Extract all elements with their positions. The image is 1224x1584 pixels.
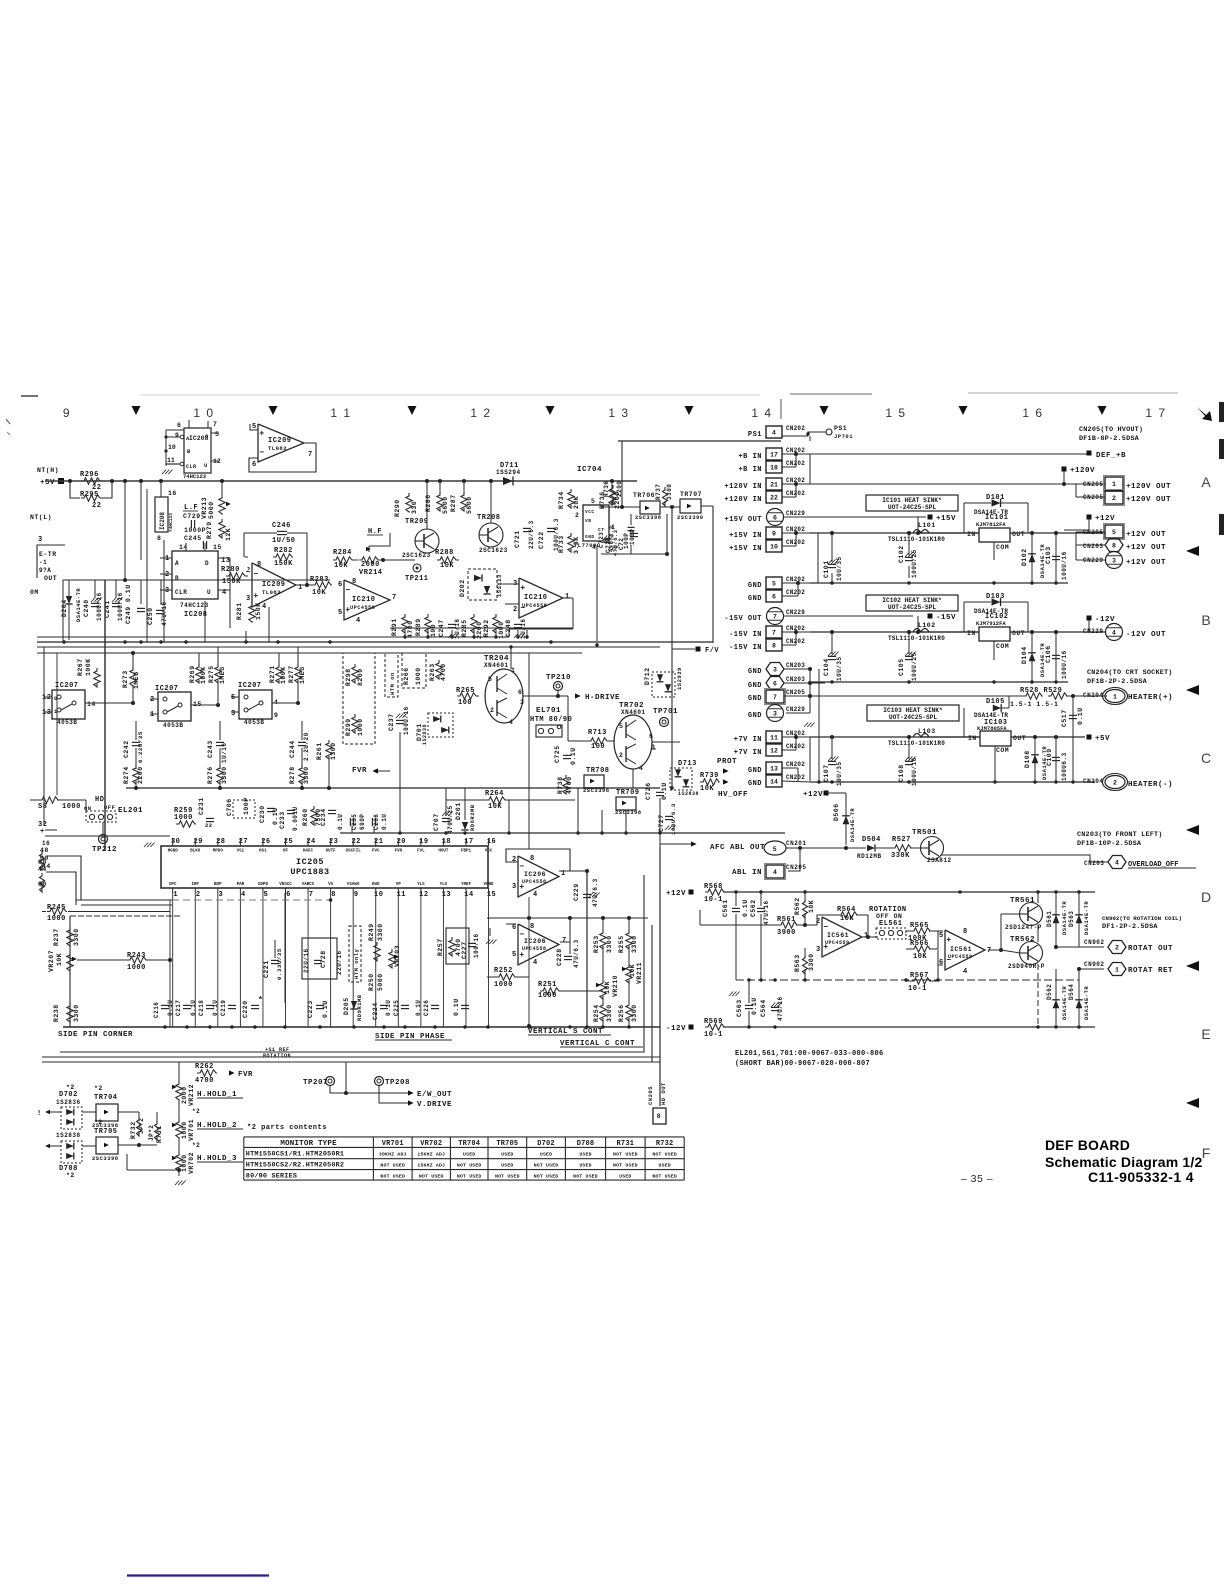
svg-text:100/16: 100/16 <box>473 933 480 958</box>
svg-text:NOT USED: NOT USED <box>613 1163 638 1169</box>
svg-text:NOT USED: NOT USED <box>380 1163 405 1169</box>
capacitor C706 100P dashed <box>233 800 255 818</box>
svg-text:R288: R288 <box>435 549 454 557</box>
svg-text:14: 14 <box>87 701 96 708</box>
bus wire y629 segment <box>509 628 573 630</box>
svg-text:YREF: YREF <box>461 883 472 887</box>
svg-text:TP211: TP211 <box>405 575 429 583</box>
trimmer VR210 10K <box>600 980 606 999</box>
capacitor C109 100U6.3 <box>1055 737 1057 782</box>
left edge box E-TR <box>37 545 65 578</box>
svg-text:C564: C564 <box>760 999 767 1017</box>
svg-text:2SC3398: 2SC3398 <box>615 809 642 816</box>
vertical drops from +5V rail <box>124 481 126 580</box>
svg-text:C249 0.1U: C249 0.1U <box>125 584 132 624</box>
svg-text:2: 2 <box>619 752 623 759</box>
svg-text:10K: 10K <box>808 900 815 913</box>
svg-text:D564: D564 <box>1068 984 1075 1000</box>
svg-text:1 0: 1 0 <box>193 406 214 420</box>
svg-text:−: − <box>345 586 350 595</box>
svg-text:C240: C240 <box>83 599 90 617</box>
diode D712 1S2939 dashed <box>652 672 675 697</box>
svg-text:100U/16: 100U/16 <box>1061 551 1068 580</box>
svg-text:GND: GND <box>748 780 762 788</box>
svg-text:1: 1 <box>150 711 155 719</box>
svg-text:8: 8 <box>1112 542 1116 549</box>
svg-text:DF1B-8P-2.5DSA: DF1B-8P-2.5DSA <box>1079 435 1140 443</box>
svg-text:4053B: 4053B <box>244 719 265 726</box>
svg-text:OUTF: OUTF <box>326 850 337 854</box>
wire IC209b out <box>296 584 312 586</box>
svg-text:+15V IN: +15V IN <box>729 532 762 540</box>
+15V stub <box>928 515 933 520</box>
svg-text:D205: D205 <box>343 997 350 1015</box>
svg-text:+15V OUT: +15V OUT <box>724 516 762 524</box>
svg-text:TR208: TR208 <box>477 514 501 522</box>
svg-text:CLR: CLR <box>186 464 197 470</box>
wire +5V rail <box>45 480 637 482</box>
svg-text:UOT-24C25-SPL: UOT-24C25-SPL <box>888 504 937 511</box>
svg-text:TSL1110-101K1R0: TSL1110-101K1R0 <box>888 740 945 747</box>
svg-text:– 35 –: – 35 – <box>961 1173 993 1185</box>
svg-text:R299: R299 <box>345 718 352 736</box>
svg-text:TR704: TR704 <box>94 1094 118 1102</box>
svg-text:C729: C729 <box>183 513 201 520</box>
svg-text:USED: USED <box>579 1151 591 1157</box>
svg-text:-12V: -12V <box>666 1025 686 1033</box>
svg-text:2SD1247-P: 2SD1247-P <box>1005 924 1042 931</box>
-12V stub <box>1087 616 1092 621</box>
capacitor C103 100U/16 <box>1055 533 1057 583</box>
svg-text:74HC123: 74HC123 <box>168 513 174 532</box>
svg-text:R737: R737 <box>655 484 662 500</box>
svg-text:100U/6.3: 100U/6.3 <box>670 803 677 835</box>
trimmer VR702 1000 <box>176 1152 182 1171</box>
dashed box R266 1000 <box>402 653 426 688</box>
svg-text:22: 22 <box>770 494 778 501</box>
wires LF <box>221 481 223 495</box>
svg-text:C234: C234 <box>320 808 327 826</box>
svg-text:1S2836: 1S2836 <box>56 1099 81 1106</box>
svg-text:CN202: CN202 <box>786 589 805 596</box>
svg-text:IC210: IC210 <box>352 596 376 604</box>
svg-text:3: 3 <box>512 883 517 891</box>
svg-text:7: 7 <box>773 694 777 701</box>
jumper JP701 <box>782 435 808 437</box>
svg-text:NT(H): NT(H) <box>37 467 59 474</box>
svg-text:8: 8 <box>157 535 161 542</box>
svg-text:6: 6 <box>512 924 517 932</box>
svg-text:1S2838: 1S2838 <box>678 791 699 797</box>
svg-text:C109: C109 <box>1046 748 1053 766</box>
svg-text:3300: 3300 <box>631 1004 638 1022</box>
+7V rail wires <box>782 736 810 738</box>
svg-text:4: 4 <box>772 429 776 436</box>
svg-text:RD12MB: RD12MB <box>857 853 882 860</box>
H-HOLD wires <box>178 1062 180 1081</box>
svg-text:74HC123: 74HC123 <box>180 602 209 609</box>
svg-text:R568: R568 <box>704 883 723 891</box>
trimmer VR212 2000 <box>176 1081 182 1100</box>
svg-text:E/W_OUT: E/W_OUT <box>417 1091 452 1099</box>
svg-text:5: 5 <box>264 891 269 899</box>
H-DRIVE arrow <box>575 693 581 698</box>
svg-text:CN202: CN202 <box>786 425 805 432</box>
svg-text:YLS: YLS <box>417 883 425 887</box>
svg-text:NOT USED: NOT USED <box>495 1174 520 1180</box>
svg-text:-15V IN: -15V IN <box>729 644 762 652</box>
svg-text:3900: 3900 <box>777 929 796 937</box>
svg-text:D702: D702 <box>537 1140 555 1148</box>
svg-text:D713: D713 <box>678 760 697 768</box>
svg-text:C103: C103 <box>1045 546 1052 564</box>
svg-text:5600: 5600 <box>466 496 473 514</box>
svg-text:TR708: TR708 <box>586 767 610 775</box>
svg-text:D506: D506 <box>833 803 840 821</box>
svg-text:R266: R266 <box>403 667 410 685</box>
svg-text:9: 9 <box>274 712 278 719</box>
svg-text:DF1B-2P-2.5DSA: DF1B-2P-2.5DSA <box>1087 678 1148 686</box>
svg-text:USED: USED <box>579 1163 591 1169</box>
svg-text:1: 1 <box>165 555 170 563</box>
svg-text:3: 3 <box>651 744 655 751</box>
svg-text:13: 13 <box>770 765 778 772</box>
svg-text:R736: R736 <box>603 481 610 497</box>
svg-text:1000: 1000 <box>174 814 193 822</box>
svg-text:DSA14E-TR: DSA14E-TR <box>1061 901 1068 935</box>
IC206a feedback <box>506 849 570 871</box>
svg-text:74HC123: 74HC123 <box>183 473 207 480</box>
svg-text:BLKO: BLKO <box>190 850 201 854</box>
svg-text:USED: USED <box>619 1174 631 1180</box>
svg-text:0.1U: 0.1U <box>661 782 668 800</box>
svg-text:3: 3 <box>773 666 777 673</box>
diode D504 RD12MB <box>846 847 866 849</box>
dash wire to pin8 <box>172 899 330 901</box>
svg-text:1 2: 1 2 <box>470 406 491 420</box>
svg-text:C72: C72 <box>618 538 625 550</box>
svg-text:13: 13 <box>42 709 51 717</box>
svg-text:R732: R732 <box>130 1121 137 1139</box>
svg-text:R254: R254 <box>593 1004 600 1022</box>
ground sym under GND row <box>804 723 808 728</box>
svg-text:IC704: IC704 <box>577 466 602 474</box>
svg-text:H-DRIVE: H-DRIVE <box>585 694 620 702</box>
rotate ret row <box>1079 968 1104 970</box>
svg-text:C107: C107 <box>823 764 830 782</box>
svg-text:GND: GND <box>748 582 762 590</box>
svg-text:COM: COM <box>996 747 1009 754</box>
svg-text:47U/16: 47U/16 <box>777 996 784 1021</box>
svg-text:2: 2 <box>490 707 494 714</box>
svg-text:TP210: TP210 <box>546 674 571 682</box>
svg-text:UOT-24C25-SPL: UOT-24C25-SPL <box>888 604 937 611</box>
capacitor C106 100U/16 <box>1055 632 1057 682</box>
svg-text:22U/6.3: 22U/6.3 <box>528 520 535 549</box>
wire IC704 gnd drop <box>596 545 598 645</box>
svg-text:+5V: +5V <box>40 479 55 487</box>
svg-text:100: 100 <box>458 699 472 707</box>
svg-text:10K: 10K <box>334 562 348 570</box>
svg-text:D504: D504 <box>862 836 881 844</box>
svg-text:D101: D101 <box>986 494 1005 502</box>
IC103 heat sink box <box>867 705 959 721</box>
svg-text:1000: 1000 <box>181 1121 188 1139</box>
svg-text:COM: COM <box>996 544 1009 551</box>
svg-text:16: 16 <box>42 840 50 847</box>
svg-text:16: 16 <box>168 490 177 497</box>
svg-text:PS1: PS1 <box>748 431 762 439</box>
svg-text:2SC1623: 2SC1623 <box>402 552 431 559</box>
svg-text:RD9R1MB: RD9R1MB <box>356 994 363 1021</box>
svg-text:1MEG: 1MEG <box>219 666 226 684</box>
svg-text:NOT USED: NOT USED <box>419 1174 444 1180</box>
svg-text:A: A <box>175 560 179 567</box>
svg-text:MPDO: MPDO <box>213 850 224 854</box>
svg-text:+B IN: +B IN <box>738 466 762 474</box>
svg-text:R273: R273 <box>122 670 129 688</box>
+5V stub <box>1087 735 1092 740</box>
vertical section enclosing box <box>60 875 644 1052</box>
svg-text:0.1U: 0.1U <box>190 1000 197 1016</box>
svg-text:*2: *2 <box>94 1085 103 1092</box>
svg-text:5: 5 <box>773 846 777 853</box>
svg-text:SDPD: SDPD <box>258 883 269 887</box>
svg-text:HD OUT: HD OUT <box>660 1082 667 1105</box>
svg-text:C563: C563 <box>736 999 743 1017</box>
svg-text:UOT-24C25-SPL: UOT-24C25-SPL <box>889 714 938 721</box>
svg-text:1 7: 1 7 <box>1145 406 1166 420</box>
svg-text:4: 4 <box>773 869 777 876</box>
svg-text:R561: R561 <box>777 916 796 924</box>
svg-text:44: 44 <box>38 866 47 873</box>
svg-text:OFF ON: OFF ON <box>876 913 902 920</box>
svg-text:VSAWG: VSAWG <box>347 883 360 887</box>
op-amp IC210a UPC4558 <box>344 580 390 620</box>
svg-text:22U/16: 22U/16 <box>336 950 343 975</box>
svg-text:+15V: +15V <box>936 515 956 523</box>
svg-text:R256: R256 <box>618 1004 625 1022</box>
svg-text:D562: D562 <box>1046 984 1053 1000</box>
svg-text:DF1B-10P-2.5DSA: DF1B-10P-2.5DSA <box>1077 840 1142 848</box>
svg-text:IC206: IC206 <box>524 938 546 945</box>
svg-text:VR703: VR703 <box>394 945 401 967</box>
svg-text:KJM7912FA: KJM7912FA <box>976 620 1006 627</box>
ground near pins <box>144 843 148 848</box>
svg-text:1000: 1000 <box>62 803 81 811</box>
svg-text:C224: C224 <box>372 1002 379 1020</box>
svg-text:0.1U: 0.1U <box>385 1000 392 1016</box>
bus wire y637 <box>37 636 509 638</box>
svg-text:DSA14E-TR: DSA14E-TR <box>974 712 1008 719</box>
svg-text:E: E <box>1201 1026 1210 1042</box>
svg-text:+: + <box>520 584 525 593</box>
IC IC208b vertical <box>155 497 168 532</box>
svg-text:(SHORT BAR)00-9067-020-000-807: (SHORT BAR)00-9067-020-000-807 <box>735 1060 870 1068</box>
svg-text:-15V IN: -15V IN <box>729 631 762 639</box>
svg-text:0.1U: 0.1U <box>381 814 388 830</box>
svg-text:+B IN: +B IN <box>738 453 762 461</box>
svg-text:0.1U: 0.1U <box>570 747 577 765</box>
svg-text:150K: 150K <box>255 602 262 620</box>
svg-text:R251: R251 <box>538 981 557 989</box>
svg-text:*2: *2 <box>192 1108 200 1115</box>
IC102 heat sink box <box>866 595 958 611</box>
svg-text:3: 3 <box>520 699 524 706</box>
svg-text:2200: 2200 <box>476 621 483 639</box>
+120V stub <box>1062 467 1067 472</box>
svg-text:C219: C219 <box>220 1000 227 1016</box>
svg-text:NOT USED: NOT USED <box>613 1151 638 1157</box>
svg-text:FBP1: FBP1 <box>461 850 472 854</box>
svg-text:2200: 2200 <box>616 481 623 497</box>
svg-text:3300: 3300 <box>221 766 228 784</box>
svg-text:FVR: FVR <box>352 767 367 775</box>
svg-text:IC561: IC561 <box>950 946 972 953</box>
svg-text:CN204(TO CRT SOCKET): CN204(TO CRT SOCKET) <box>1087 669 1173 677</box>
svg-text:12: 12 <box>770 747 778 754</box>
svg-text:GND: GND <box>748 767 762 775</box>
svg-text:3300: 3300 <box>303 766 310 784</box>
svg-text:SPC: SPC <box>169 883 177 887</box>
left edge verticals <box>43 647 45 826</box>
svg-text:A: A <box>1201 474 1211 490</box>
svg-text:10-1: 10-1 <box>704 896 723 904</box>
svg-text:−: − <box>253 570 258 579</box>
GND13/14 wires <box>782 767 798 769</box>
svg-text:TP212: TP212 <box>92 846 117 854</box>
svg-text:-15V OUT: -15V OUT <box>724 615 762 623</box>
svg-text:100P: 100P <box>243 797 250 815</box>
svg-text:GND: GND <box>748 682 762 690</box>
svg-text:+12V OUT: +12V OUT <box>1126 544 1166 552</box>
svg-text:100K: 100K <box>200 666 207 684</box>
svg-text:TR209: TR209 <box>405 518 429 526</box>
svg-text:12K: 12K <box>225 528 232 541</box>
rails into IC205 pin1 <box>76 899 172 901</box>
svg-text:E-TR: E-TR <box>39 551 57 558</box>
test point TP208 <box>375 1077 384 1086</box>
rotate out row <box>1056 946 1104 948</box>
V.DRIVE arrow <box>379 1086 408 1103</box>
svg-text:6: 6 <box>773 514 777 521</box>
svg-text:FVR: FVR <box>238 1071 253 1079</box>
rail y833 center <box>340 832 785 834</box>
svg-text:OUT: OUT <box>44 575 57 582</box>
svg-text:1S2939: 1S2939 <box>676 667 683 690</box>
svg-text:22: 22 <box>205 822 213 829</box>
svg-text:D204: D204 <box>61 599 68 617</box>
svg-text:*2 parts contents: *2 parts contents <box>247 1124 327 1132</box>
arrow into D702 <box>45 1110 50 1115</box>
svg-text:1000: 1000 <box>127 964 146 972</box>
svg-text:R287: R287 <box>450 494 457 512</box>
svg-text:1 6: 1 6 <box>1022 406 1043 420</box>
faint ruler guide lines <box>140 394 760 396</box>
wire top right corner <box>618 440 781 442</box>
svg-text:*2: *2 <box>94 1119 103 1126</box>
wire PS1 loop <box>621 441 623 507</box>
rotation bus lines <box>42 1056 660 1058</box>
junction dots on bus <box>62 640 65 643</box>
TR706 region wires <box>601 506 640 508</box>
label F/V <box>696 647 701 652</box>
svg-text:R734: R734 <box>558 491 565 509</box>
capacitor C517 0.1U <box>1072 696 1074 782</box>
svg-text:1000: 1000 <box>498 621 505 639</box>
svg-text:C237: C237 <box>388 713 395 731</box>
-15V rail wires <box>784 615 913 617</box>
wire IC561a out <box>862 936 878 938</box>
svg-text:1 4: 1 4 <box>751 406 772 420</box>
svg-text:0.1U: 0.1U <box>751 997 758 1015</box>
svg-text:C230: C230 <box>259 805 266 823</box>
test point TP701 <box>660 718 669 727</box>
svg-text:9: 9 <box>772 530 776 537</box>
wire TP208 up <box>345 1062 347 1093</box>
svg-text:C721: C721 <box>514 530 521 548</box>
svg-text:1000P: 1000P <box>184 527 206 534</box>
svg-text:FVR: FVR <box>395 850 403 854</box>
svg-text:CN229: CN229 <box>786 510 805 517</box>
svg-text:AFC ABL OUT: AFC ABL OUT <box>710 844 765 852</box>
svg-text:PAR: PAR <box>237 883 245 887</box>
svg-text:NOT USED: NOT USED <box>457 1163 482 1169</box>
svg-text:HTM on: HTM on <box>389 672 396 695</box>
svg-text:D: D <box>1201 889 1211 905</box>
svg-text:R733: R733 <box>558 535 565 553</box>
svg-text:1U/16: 1U/16 <box>221 742 228 763</box>
svg-text:GND: GND <box>748 712 762 720</box>
svg-text:3: 3 <box>773 710 777 717</box>
svg-text:R290: R290 <box>394 499 401 517</box>
svg-text:FVC: FVC <box>372 850 380 854</box>
svg-text:0.001U: 0.001U <box>292 806 299 831</box>
svg-text:47U/6.3: 47U/6.3 <box>592 878 599 907</box>
svg-text:!: ! <box>37 1110 42 1118</box>
svg-text:ABL IN: ABL IN <box>732 869 762 877</box>
svg-text:470U/25: 470U/25 <box>447 805 454 834</box>
svg-text:C216: C216 <box>153 1002 160 1018</box>
trimmer VR701 1000 <box>176 1119 182 1138</box>
svg-text:1000: 1000 <box>181 1154 188 1172</box>
svg-text:7: 7 <box>308 451 313 459</box>
svg-text:HEATER(-): HEATER(-) <box>1128 781 1173 789</box>
svg-text:COM: COM <box>996 643 1009 650</box>
svg-text:5000: 5000 <box>208 501 215 519</box>
svg-text:2000: 2000 <box>181 1086 188 1104</box>
svg-text:TSL1110-101K1R0: TSL1110-101K1R0 <box>888 536 945 543</box>
svg-text:7: 7 <box>773 613 777 620</box>
+12V stub mid <box>824 791 829 796</box>
svg-text:6: 6 <box>518 689 522 696</box>
svg-text:IN: IN <box>968 735 977 742</box>
svg-text:VCC: VCC <box>585 509 595 515</box>
main bottom rail <box>63 1026 660 1028</box>
svg-text:R238: R238 <box>53 1004 60 1022</box>
svg-text:IC101 HEAT SINK*: IC101 HEAT SINK* <box>882 497 942 504</box>
svg-text:6: 6 <box>649 733 653 740</box>
svg-text:C233: C233 <box>279 811 286 829</box>
IC U-IC208a 74HC123 <box>184 428 211 473</box>
svg-text:R274: R274 <box>123 766 130 784</box>
wires under R264 <box>446 799 486 801</box>
svg-text:IC209: IC209 <box>268 437 292 445</box>
svg-text:JP*2: JP*2 <box>148 1125 155 1141</box>
FVR arrow right <box>229 1070 235 1075</box>
svg-text:D708: D708 <box>577 1140 595 1148</box>
IC101 heat sink box <box>866 495 958 511</box>
